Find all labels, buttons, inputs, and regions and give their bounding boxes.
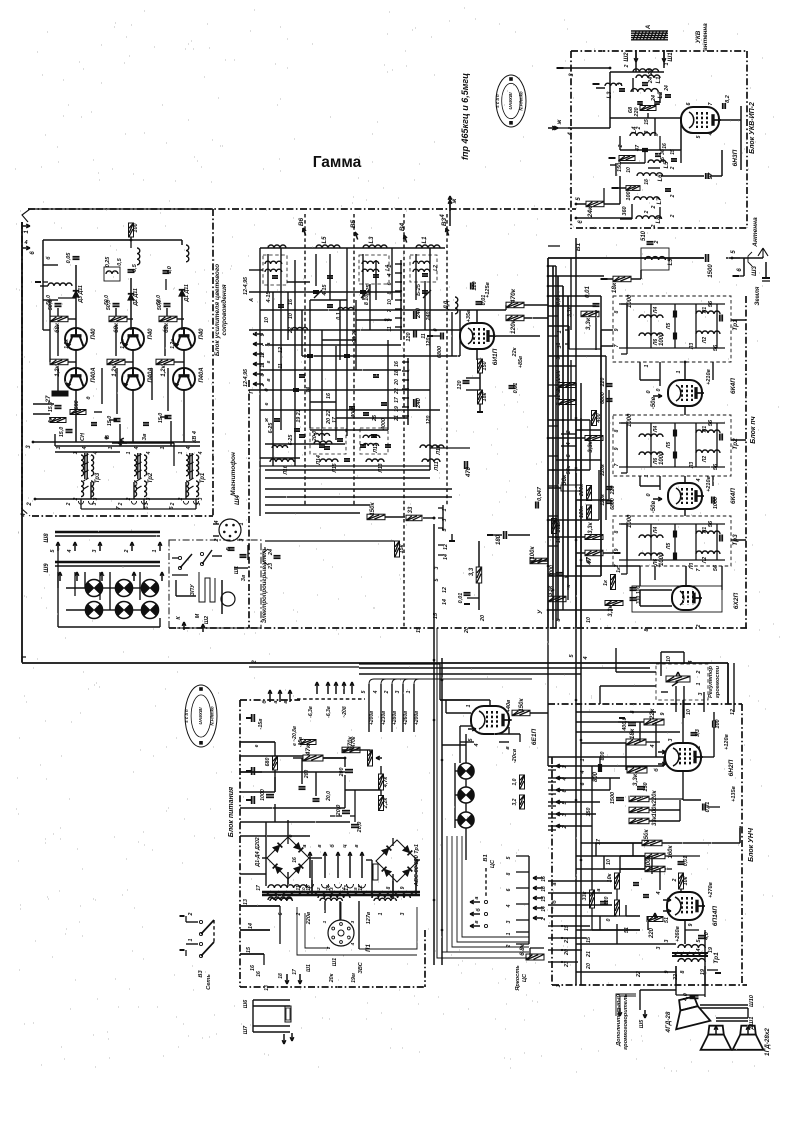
svg-text:0,1: 0,1	[336, 312, 342, 319]
svg-text:Блок питания: Блок питания	[228, 787, 235, 837]
svg-text:В5: В5	[350, 219, 357, 228]
svg-text:Л4: Л4	[653, 307, 659, 314]
svg-text:+135в: +135в	[731, 785, 737, 801]
svg-text:2: 2	[696, 670, 702, 674]
svg-text:е: е	[254, 744, 260, 747]
svg-text:33к: 33к	[582, 890, 588, 900]
svg-text:14: 14	[541, 906, 547, 912]
svg-text:6К4П: 6К4П	[730, 488, 737, 504]
block color-unit border	[28, 208, 213, 210]
svg-text:ЗПУ: ЗПУ	[190, 583, 196, 595]
feeder arrows Sh2 Sh1	[635, 50, 637, 62]
svg-text:0,01: 0,01	[513, 383, 519, 394]
coil L2	[631, 89, 658, 92]
resistor 100k diag	[530, 558, 548, 564]
wire main antenna line	[548, 257, 704, 259]
cap 800	[598, 764, 600, 772]
svg-text:Л2: Л2	[702, 456, 708, 463]
svg-text:1500: 1500	[708, 264, 714, 278]
svg-text:150к: 150к	[617, 159, 623, 172]
240 caps	[413, 311, 415, 319]
svg-text:6,8к: 6,8к	[520, 943, 526, 955]
svg-text:L6: L6	[658, 174, 664, 182]
trim caps scatter tuner	[313, 290, 319, 292]
svg-text:Д3 Д11: Д3 Д11	[78, 285, 84, 304]
resistor 10k c	[615, 900, 620, 916]
svg-text:120: 120	[472, 281, 478, 290]
svg-text:220в: 220в	[306, 911, 312, 925]
cap 1000 at 6K4P2	[711, 497, 713, 504]
svg-text:4: 4	[568, 132, 574, 137]
wire web tuner block	[259, 248, 261, 516]
svg-text:16: 16	[256, 971, 262, 977]
pins 15 21 20 23 wires	[548, 925, 562, 927]
svg-text:22: 22	[394, 388, 400, 395]
resistor 100	[626, 186, 640, 191]
svg-text:1000: 1000	[713, 497, 719, 509]
svg-text:1: 1	[656, 564, 662, 567]
svg-text:2: 2	[260, 383, 266, 387]
resistor 18k unch	[626, 739, 646, 745]
color block core hatch	[84, 454, 89, 457]
svg-text:6: 6	[278, 912, 284, 915]
svg-text:4: 4	[186, 446, 192, 450]
svg-text:2: 2	[651, 224, 657, 228]
caps 47 36 15	[642, 148, 648, 150]
resistor 680	[70, 410, 86, 415]
resistor 33k det	[548, 596, 566, 602]
cap 0.01 tone	[702, 804, 704, 811]
svg-text:17: 17	[596, 838, 602, 845]
svg-text:18: 18	[541, 886, 547, 892]
wire web 6E1P area	[440, 699, 470, 701]
svg-text:Л1: Л1	[702, 307, 708, 314]
svg-text:470к: 470к	[510, 288, 517, 304]
svg-text:100к: 100к	[530, 546, 536, 560]
svg-text:L9: L9	[668, 258, 674, 266]
wires ps	[595, 842, 642, 844]
ground Zemlya	[765, 262, 767, 278]
resistor 150k bus	[367, 514, 385, 520]
pin ladder lower	[407, 358, 409, 425]
resistor 18k	[613, 276, 631, 282]
resistor 1k	[50, 418, 66, 423]
svg-text:2: 2	[618, 82, 624, 86]
svg-text:8: 8	[680, 970, 686, 973]
svg-text:1: 1	[322, 920, 327, 923]
svg-text:4: 4	[373, 690, 379, 694]
svg-text:Зв: Зв	[241, 574, 247, 581]
svg-text:Ш2: Ш2	[204, 616, 210, 624]
svg-text:7: 7	[614, 344, 620, 347]
resistor 15k vert	[395, 541, 400, 557]
speaker wires	[640, 989, 676, 991]
switch shaft dashed lines	[304, 214, 306, 505]
UKV extra wires	[632, 78, 634, 92]
svg-text:15: 15	[246, 946, 252, 953]
6E1P wires extra	[446, 712, 471, 714]
svg-text:20: 20	[394, 379, 400, 386]
coil can left pair	[263, 255, 287, 285]
resistor 220k tone	[629, 796, 649, 802]
svg-text:20: 20	[480, 615, 486, 622]
trimmers 6-25 bottom	[294, 428, 300, 430]
svg-text:100: 100	[133, 223, 139, 232]
svg-text:В3: В3	[441, 217, 448, 226]
svg-text:150: 150	[586, 808, 592, 817]
svg-text:а: а	[596, 888, 602, 891]
svg-text:11: 11	[421, 333, 427, 339]
svg-text:Блок УКВ-ИП-2: Блок УКВ-ИП-2	[749, 102, 756, 154]
svg-text:2: 2	[696, 745, 702, 749]
svg-text:22к: 22к	[649, 708, 656, 720]
power extra bits	[299, 786, 306, 788]
pins 1 3 5 right bus	[442, 505, 444, 530]
svg-text:А: А	[249, 298, 255, 303]
svg-text:17: 17	[292, 969, 298, 975]
svg-text:а: а	[474, 896, 480, 899]
svg-text:15,0: 15,0	[107, 416, 113, 426]
power transformer windings	[268, 885, 306, 888]
bracket Sh5	[620, 996, 636, 1014]
svg-text:127в: 127в	[366, 911, 372, 924]
svg-text:1: 1	[466, 704, 472, 707]
svg-text:3: 3	[434, 566, 440, 569]
svg-text:2: 2	[541, 917, 547, 921]
svg-text:L1: L1	[422, 236, 428, 244]
svg-text:4: 4	[580, 770, 586, 774]
svg-text:11: 11	[296, 885, 302, 890]
svg-text:1,2к: 1,2к	[161, 364, 167, 376]
svg-text:50,0: 50,0	[156, 295, 162, 305]
color block pin loops	[78, 501, 83, 504]
power trafo core hatch	[266, 891, 271, 895]
svg-text:-50в: -50в	[651, 396, 657, 409]
second agc set	[561, 485, 581, 491]
svg-text:1000: 1000	[659, 552, 665, 566]
resistor 3.3 vert	[476, 567, 482, 583]
block UKV-IP-2 border	[571, 50, 747, 52]
svg-text:18: 18	[278, 973, 284, 979]
svg-text:15: 15	[556, 520, 562, 527]
wires tone	[682, 771, 684, 800]
svg-text:Ш7: Ш7	[243, 1025, 249, 1034]
svg-text:+35в: +35в	[466, 309, 472, 322]
svg-text:Тр1: Тр1	[200, 472, 206, 483]
wires transformer	[265, 874, 267, 886]
output trafo core hatch	[674, 952, 678, 956]
svg-text:Ш1: Ш1	[234, 566, 240, 574]
svg-text:2: 2	[66, 502, 72, 506]
svg-text:47: 47	[586, 556, 592, 564]
svg-text:8: 8	[506, 872, 512, 875]
left bus column resistors	[558, 383, 576, 388]
svg-text:2: 2	[651, 205, 657, 209]
lamp feed wires 2	[84, 572, 86, 588]
wire UKV input	[635, 62, 637, 72]
bridge leads	[287, 837, 289, 844]
caps 50.0 x3	[55, 303, 62, 305]
svg-text:Ш9: Ш9	[44, 563, 50, 573]
svg-text:1: 1	[152, 549, 158, 552]
svg-text:+120в: +120в	[724, 733, 730, 749]
svg-text:14: 14	[326, 885, 332, 891]
svg-text:2: 2	[296, 912, 302, 916]
svg-text:Д1 Д11: Д1 Д11	[184, 284, 190, 303]
svg-text:Зв: Зв	[142, 433, 148, 441]
svg-text:10: 10	[626, 167, 632, 173]
trimmer 4-15 b	[327, 275, 333, 277]
svg-text:680: 680	[265, 758, 271, 767]
svg-text:24: 24	[651, 95, 657, 102]
resistor 470k	[506, 302, 524, 308]
svg-text:120: 120	[406, 332, 412, 341]
resistor 10k ps left	[615, 873, 620, 889]
resistor 18k vert	[478, 390, 483, 404]
svg-text:д: д	[86, 396, 92, 399]
svg-text:0,047: 0,047	[537, 486, 543, 501]
svg-text:16: 16	[288, 299, 294, 305]
svg-text:100: 100	[626, 191, 632, 200]
svg-text:1: 1	[556, 342, 562, 345]
cap 120 and 18k lower-left of IF	[465, 391, 467, 393]
player switch	[178, 556, 181, 559]
svg-text:-20св: -20св	[512, 748, 518, 763]
svg-text:6Х2П: 6Х2П	[733, 593, 740, 610]
svg-text:10: 10	[606, 859, 612, 865]
coil L6	[637, 173, 663, 176]
svg-text:9: 9	[384, 318, 390, 321]
left vertical bus	[21, 222, 23, 662]
svg-text:2: 2	[636, 126, 642, 130]
svg-text:9: 9	[660, 712, 666, 715]
IF taps extra	[548, 315, 558, 317]
arrow zh out left	[555, 127, 557, 129]
top rail	[43, 239, 182, 241]
svg-text:1: 1	[378, 912, 384, 915]
pot 51	[647, 917, 663, 922]
svg-text:9: 9	[260, 333, 266, 336]
svg-text:4000: 4000	[381, 418, 387, 431]
resistor 22k	[644, 719, 664, 725]
tube 6I1P	[460, 323, 494, 349]
terminal arrows tuner left	[253, 333, 263, 335]
svg-text:8: 8	[614, 310, 620, 313]
svg-text:17: 17	[256, 885, 262, 891]
svg-text:СН: СН	[80, 432, 86, 441]
svg-text:120к: 120к	[600, 494, 606, 506]
svg-text:громкости: громкости	[715, 665, 721, 698]
osc coil row lower	[270, 459, 294, 462]
tube 6N2P	[665, 743, 701, 771]
svg-text:Тр1: Тр1	[713, 952, 720, 964]
svg-text:800: 800	[600, 752, 606, 761]
svg-text:В4: В4	[399, 222, 406, 231]
svg-text:3,3: 3,3	[695, 729, 701, 737]
svg-text:220к: 220к	[556, 370, 562, 385]
svg-text:е: е	[264, 402, 270, 405]
svg-text:+260в: +260в	[675, 925, 681, 941]
svg-text:4: 4	[146, 451, 152, 455]
wires tube1 to filters	[684, 362, 686, 380]
svg-text:1500: 1500	[610, 792, 616, 804]
svg-text:Сеть: Сеть	[206, 974, 212, 990]
svg-text:16: 16	[662, 143, 668, 149]
svg-text:510: 510	[641, 230, 647, 241]
svg-text:8: 8	[260, 373, 266, 376]
resistor 6.8k brightness	[526, 954, 544, 960]
coil L8	[636, 216, 662, 219]
diode D1 D11	[179, 290, 185, 296]
svg-text:19м: 19м	[351, 973, 357, 983]
svg-text:12-4,95: 12-4,95	[243, 276, 249, 295]
resistor 100k tone	[629, 807, 649, 813]
svg-text:2: 2	[654, 240, 660, 244]
svg-text:15: 15	[586, 936, 592, 943]
volume pot box	[656, 664, 708, 700]
svg-text:1ГД-28х2: 1ГД-28х2	[764, 1028, 771, 1056]
svg-text:4: 4	[82, 446, 88, 450]
svg-text:4: 4	[696, 478, 702, 482]
svg-text:15к: 15к	[399, 543, 405, 553]
svg-text:100: 100	[636, 586, 642, 595]
svg-text:Антенна: Антенна	[752, 217, 759, 248]
resistors 1.2k x3	[50, 359, 68, 365]
svg-text:10: 10	[686, 709, 692, 715]
wire web power block	[240, 741, 275, 743]
svg-text:Л6: Л6	[653, 458, 659, 465]
cap 1000 ps	[266, 794, 274, 796]
svg-text:П40: П40	[148, 328, 154, 340]
svg-text:13: 13	[243, 899, 249, 905]
svg-text:~208: ~208	[342, 706, 348, 717]
cap 0.01 bottom bus	[464, 592, 471, 594]
pins col right power	[516, 855, 529, 857]
svg-text:68к: 68к	[114, 322, 120, 333]
svg-text:Ш1: Ш1	[668, 52, 674, 62]
svg-text:2: 2	[672, 878, 678, 882]
resistor 33k ps	[590, 890, 595, 908]
svg-text:+280в: +280в	[392, 711, 398, 725]
svg-text:ДШ1: ДШ1	[749, 1017, 755, 1031]
wires filter connections	[612, 329, 614, 331]
svg-text:Л3: Л3	[689, 462, 695, 469]
transistors P40A row	[65, 368, 87, 390]
svg-text:2: 2	[670, 194, 676, 198]
wires pot	[660, 652, 662, 676]
svg-text:2,2к: 2,2к	[383, 797, 389, 810]
cap 120 cath	[463, 380, 470, 382]
svg-text:15: 15	[306, 885, 312, 891]
svg-text:20к: 20к	[329, 973, 335, 983]
wire web UNCH	[576, 711, 656, 713]
svg-text:АВС-80-260 Тр1: АВС-80-260 Тр1	[414, 844, 420, 887]
cap 8.2	[722, 103, 724, 109]
svg-text:14: 14	[306, 387, 312, 393]
svg-text:12: 12	[278, 347, 284, 353]
svg-text:ДД: ДД	[444, 300, 450, 310]
svg-text:3,3к: 3,3к	[585, 317, 592, 330]
svg-text:12: 12	[358, 885, 364, 891]
wires output trafo	[684, 920, 686, 944]
svg-text:10к: 10к	[683, 875, 689, 885]
IF bundle dots and taps	[547, 265, 550, 268]
left pin wires 1 4 6 5 3 2	[548, 765, 560, 767]
svg-text:Магнитофон: Магнитофон	[230, 452, 237, 496]
svg-text:19 21: 19 21	[296, 409, 302, 422]
svg-text:+270в: +270в	[708, 881, 714, 897]
svg-text:Л13: Л13	[378, 463, 384, 473]
tuner can second coils	[362, 269, 379, 272]
svg-text:П40А: П40А	[148, 367, 154, 382]
svg-text:10: 10	[264, 317, 270, 323]
band coils row L5 L3 L1	[316, 245, 340, 248]
resistor 2.2k	[379, 796, 384, 811]
cap 15.0 a	[55, 405, 62, 407]
svg-text:П40: П40	[199, 328, 205, 340]
svg-text:4: 4	[67, 549, 73, 553]
svg-text:2: 2	[252, 660, 258, 665]
transformer Tr2	[134, 455, 137, 476]
svg-text:2: 2	[188, 912, 194, 916]
cap 0.5	[128, 269, 135, 271]
transformer Tr3	[81, 455, 84, 476]
svg-text:24: 24	[268, 549, 274, 556]
cap 120 pre-tube	[470, 283, 472, 290]
wires around 6I1P	[476, 310, 478, 323]
svg-text:П40А: П40А	[91, 367, 97, 382]
wires 6N2P	[682, 700, 684, 743]
svg-text:51: 51	[664, 917, 670, 923]
svg-text:+210в: +210в	[706, 475, 712, 491]
svg-text:Л6: Л6	[653, 339, 659, 346]
tone caps 150 1500	[637, 786, 645, 788]
svg-text:2: 2	[170, 502, 176, 506]
svg-text:3,3к: 3,3к	[588, 521, 594, 533]
svg-text:25: 25	[372, 414, 378, 422]
svg-text:0,05: 0,05	[66, 252, 72, 264]
svg-text:50,0: 50,0	[104, 295, 110, 305]
svg-text:20 22: 20 22	[352, 329, 358, 343]
svg-text:2: 2	[118, 502, 124, 506]
svg-text:4ГД-28: 4ГД-28	[665, 1011, 672, 1033]
antenna bracket Sh3	[748, 252, 752, 266]
svg-text:16: 16	[541, 876, 547, 882]
svg-text:s c a n: s c a n	[495, 94, 500, 108]
svg-text:L5: L5	[322, 236, 328, 244]
wire web IF strip horizontals	[548, 265, 556, 267]
UNCH extra rows	[548, 769, 556, 771]
svg-text:9: 9	[400, 886, 406, 889]
coil L3	[605, 83, 622, 86]
svg-text:1,0: 1,0	[167, 266, 173, 274]
svg-text:В1: В1	[483, 854, 489, 861]
coil can L4 L6	[359, 255, 389, 284]
choke coil 2	[186, 245, 189, 262]
tube 6X2P detector	[672, 586, 700, 610]
cap 1500	[705, 254, 707, 262]
svg-text:10: 10	[586, 617, 592, 623]
player motor circle	[221, 592, 235, 606]
node 6	[732, 257, 740, 259]
svg-text:20: 20	[464, 627, 470, 634]
wires IF left bus	[547, 258, 549, 628]
svg-text:6П14П: 6П14П	[712, 906, 719, 927]
svg-text:Л3: Л3	[689, 343, 695, 350]
svg-text:+210в: +210в	[706, 368, 712, 384]
svg-text:+230в: +230в	[381, 711, 387, 725]
svg-text:14: 14	[442, 599, 448, 605]
